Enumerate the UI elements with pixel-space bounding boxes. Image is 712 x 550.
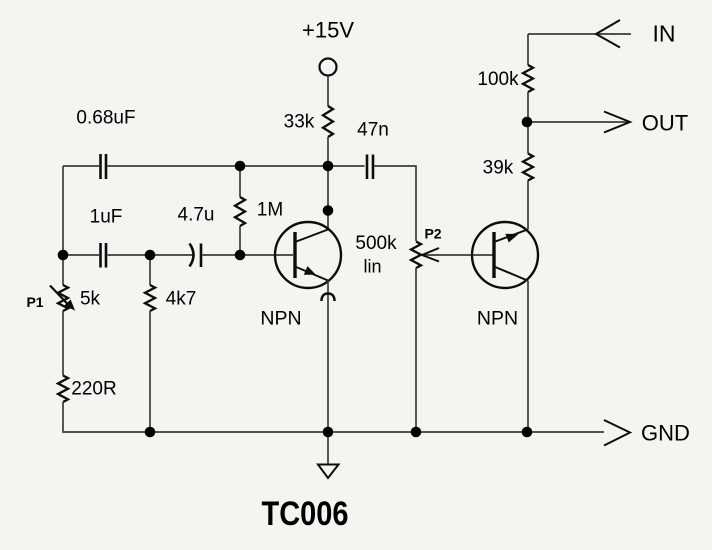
transistor Q2 emitter line (up) (494, 230, 528, 243)
transistor Q1 base bar (293, 232, 296, 278)
wire 1uF to 4.7u (108, 254, 195, 256)
transistor Q1 circle (275, 222, 341, 288)
wire second horizontal y=255 left rail to 1uF (63, 254, 99, 256)
wire Q1 emitter down to rail (327, 281, 329, 433)
resistor 1M zigzag (235, 197, 245, 226)
junction dot ground rail 4k7 (145, 427, 156, 438)
junction dot OUT node (522, 117, 533, 128)
svg-text:IN: IN (653, 21, 676, 47)
svg-text:500k: 500k (355, 233, 397, 254)
transistor Q2 collector line (down) (494, 267, 528, 281)
wire 100k to OUT node (527, 92, 529, 154)
transistor Q2 base bar (492, 232, 495, 278)
emitter chevron hop (322, 294, 335, 302)
svg-text:lin: lin (363, 257, 381, 277)
wire 1M to base wire (239, 226, 241, 255)
wire 0.68uF to node and to 33k junction (108, 165, 365, 167)
wire 33k to top wire junction and down to collector node (327, 137, 329, 230)
wire 4.7u to transistor base node (203, 254, 294, 256)
junction dot left rail / 1uF node (58, 250, 69, 261)
junction dot node 33k bottom (323, 161, 334, 172)
ground symbol triangle (318, 465, 339, 479)
svg-text:220R: 220R (71, 379, 116, 400)
IN arrow wire (528, 33, 631, 35)
resistor 39k zigzag (523, 154, 533, 181)
svg-text:OUT: OUT (642, 111, 688, 136)
svg-text:+15V: +15V (302, 18, 354, 43)
svg-text:1M: 1M (257, 200, 283, 221)
resistor 220R zigzag (58, 376, 68, 403)
wire IN corner down through 100k (527, 34, 529, 65)
svg-text:NPN: NPN (477, 308, 518, 330)
capacitor 1uF plates (101, 243, 107, 268)
capacitor 47n plates (367, 155, 373, 180)
transistor Q1 emitter arrow (305, 267, 315, 274)
svg-text:4k7: 4k7 (166, 289, 197, 310)
wire top horizontal y=166 from left rail to 0.68uF (63, 165, 99, 167)
wire Q2 collector down to rail (527, 281, 529, 433)
svg-text:39k: 39k (483, 158, 514, 179)
svg-text:4.7u: 4.7u (178, 205, 215, 226)
svg-text:100k: 100k (477, 69, 519, 90)
transistor Q1 emitter line (295, 267, 328, 281)
svg-text:P2: P2 (424, 226, 441, 242)
svg-text:5k: 5k (80, 289, 101, 310)
resistor 33k zigzag (323, 106, 333, 137)
svg-text:TC006: TC006 (262, 495, 349, 533)
OUT arrowhead (604, 112, 630, 133)
junction dot ground rail Q1 emitter (323, 427, 334, 438)
wire +15V circle to 33k (327, 76, 329, 107)
wire 4k7 to bottom rail (149, 311, 151, 432)
wire P1 to 220R (62, 311, 64, 376)
junction dot ground rail Q2 collector (522, 427, 533, 438)
transistor Q2 circle (472, 222, 538, 288)
capacitor 4.7u straight plate (200, 244, 203, 268)
capacitor C 0.68uF plates (101, 154, 107, 179)
GND arrowhead (604, 420, 630, 446)
junction dot Q1 collector node (323, 205, 334, 216)
junction dot node 1M top (235, 161, 246, 172)
wire 39k down to Q2 emitter (527, 181, 529, 230)
junction dot 1M bottom / Q1 base node (235, 250, 246, 261)
wire P2 bottom to rail (415, 268, 417, 432)
P1 wiper diagonal arrow (50, 286, 70, 307)
resistor 4k7 zigzag (145, 285, 155, 311)
svg-text:47n: 47n (357, 120, 389, 141)
P2 wiper arrow to Q2 base (422, 254, 493, 256)
svg-text:GND: GND (641, 421, 690, 446)
left rail vertical (62, 166, 64, 285)
junction dot 4k7 top node (145, 250, 156, 261)
svg-text:NPN: NPN (260, 308, 301, 330)
wire 47n to corner then down to P2 (375, 166, 417, 241)
junction dot ground rail P2 (411, 427, 422, 438)
wire 1M branch vertical x=240 top (239, 166, 241, 197)
svg-text:P1: P1 (26, 294, 43, 310)
ground stub (327, 432, 329, 464)
capacitor 4.7u curved plate (190, 244, 194, 267)
transistor Q2 emitter arrow (506, 234, 517, 241)
OUT arrow wire (528, 121, 628, 123)
transistor Q1 collector line (295, 230, 328, 243)
IN arrowhead (596, 20, 620, 48)
svg-text:33k: 33k (284, 112, 315, 133)
power terminal +15V circle (320, 59, 337, 76)
potentiometer P1 5k zigzag (58, 285, 68, 311)
resistor 100k zigzag (523, 65, 533, 92)
svg-text:0.68uF: 0.68uF (76, 108, 135, 129)
svg-text:1uF: 1uF (90, 207, 123, 228)
wire 4k7 branch vertical x=150 (149, 255, 151, 285)
potentiometer P2 zigzag (411, 242, 421, 269)
wire 220R down to bottom rail corner (63, 402, 604, 432)
